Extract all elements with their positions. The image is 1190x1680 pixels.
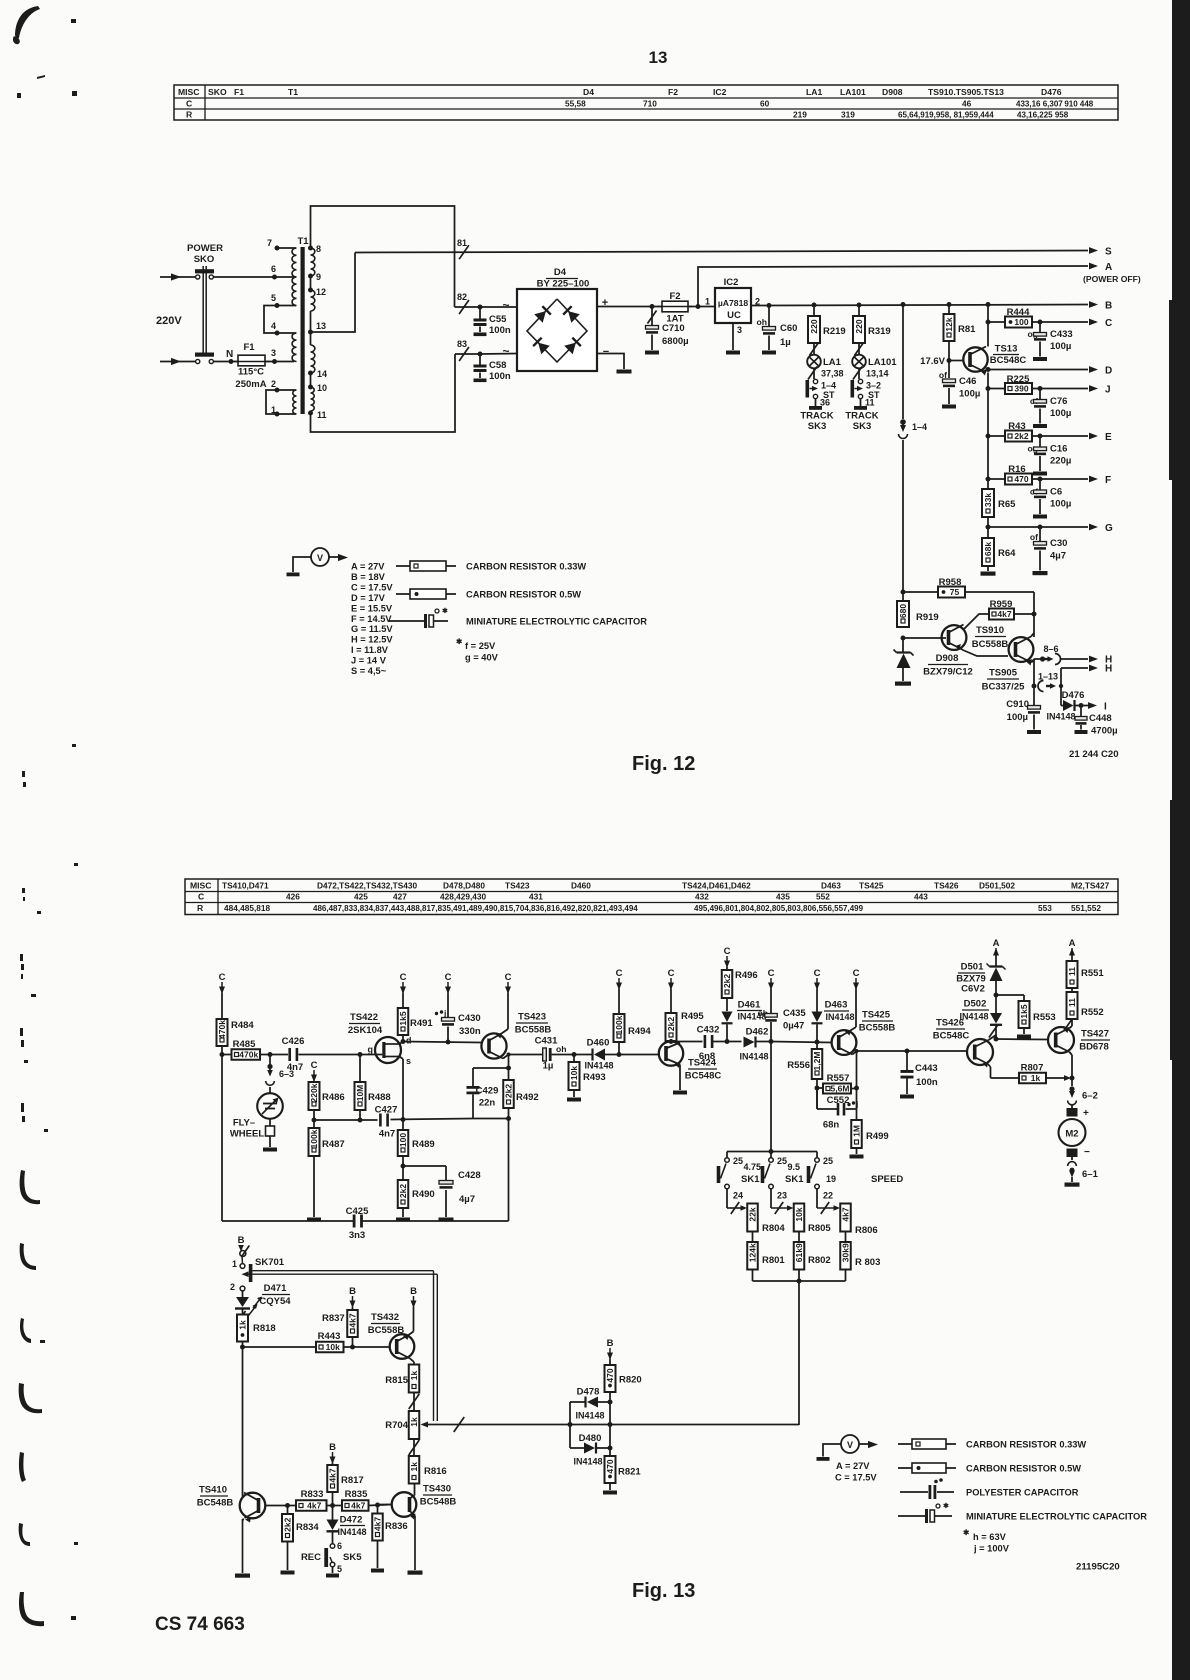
svg-text:A = 27V: A = 27V bbox=[836, 1461, 870, 1471]
svg-text:100µ: 100µ bbox=[1050, 341, 1071, 352]
svg-text:C46: C46 bbox=[959, 376, 976, 387]
svg-text:4k7: 4k7 bbox=[348, 1313, 358, 1327]
ground TS430 bbox=[408, 1571, 423, 1575]
svg-text:25: 25 bbox=[777, 1156, 787, 1166]
transistor TS423 BC558B bbox=[481, 1012, 551, 1059]
svg-text:1–4: 1–4 bbox=[821, 381, 836, 391]
svg-text:C60: C60 bbox=[780, 323, 797, 334]
svg-text:2k2: 2k2 bbox=[666, 1017, 676, 1031]
svg-text:✱: ✱ bbox=[442, 607, 448, 615]
svg-text:2k2: 2k2 bbox=[504, 1084, 514, 1098]
svg-text:4700µ: 4700µ bbox=[1091, 726, 1118, 737]
svg-text:IN4148: IN4148 bbox=[584, 1061, 613, 1071]
svg-text:100µ: 100µ bbox=[959, 389, 980, 400]
svg-text:2k2: 2k2 bbox=[398, 1184, 408, 1198]
svg-text:D476: D476 bbox=[1062, 690, 1085, 701]
svg-text:TS426: TS426 bbox=[934, 881, 959, 891]
svg-text:F = 14.5V: F = 14.5V bbox=[351, 614, 392, 624]
svg-text:1k: 1k bbox=[409, 1417, 419, 1427]
svg-text:V: V bbox=[317, 553, 323, 563]
ground R834 bbox=[281, 1571, 295, 1575]
resistor R485 bbox=[232, 1039, 261, 1060]
wire T1 pin 13 to S line (81) bbox=[311, 253, 356, 333]
wire R704 wiper input bbox=[421, 1417, 571, 1432]
svg-text:12: 12 bbox=[316, 287, 326, 297]
svg-text:TS430: TS430 bbox=[423, 1484, 451, 1495]
svg-text:SK1: SK1 bbox=[741, 1174, 760, 1185]
svg-text:1–13: 1–13 bbox=[1038, 672, 1058, 682]
svg-text:D908: D908 bbox=[936, 653, 959, 664]
ground R487 bbox=[307, 1218, 321, 1222]
svg-text:5: 5 bbox=[271, 293, 276, 303]
svg-text:R493: R493 bbox=[583, 1072, 606, 1083]
resistor R557 bbox=[815, 1073, 857, 1094]
svg-text:CARBON RESISTOR 0.33W: CARBON RESISTOR 0.33W bbox=[466, 562, 586, 572]
diode D460 IN4148 bbox=[584, 1038, 614, 1071]
connector 6-3 bbox=[266, 1055, 294, 1086]
capacitor C16 bbox=[1028, 436, 1072, 476]
svg-text:UC: UC bbox=[727, 310, 741, 321]
ground TS424 bbox=[673, 1091, 687, 1095]
svg-text:C30: C30 bbox=[1050, 538, 1067, 549]
svg-text:LA1: LA1 bbox=[806, 87, 822, 97]
svg-text:(POWER OFF): (POWER OFF) bbox=[1083, 274, 1141, 284]
svg-text:6800µ: 6800µ bbox=[662, 336, 689, 347]
svg-text:R489: R489 bbox=[412, 1139, 435, 1150]
fet TS422 2SK104 bbox=[348, 1012, 412, 1066]
svg-text:C: C bbox=[1105, 318, 1112, 329]
svg-text:D472: D472 bbox=[340, 1515, 363, 1526]
transistor TS426 BC548C bbox=[933, 1018, 993, 1068]
ground TS410 bbox=[235, 1574, 250, 1578]
svg-text:D478: D478 bbox=[577, 1387, 600, 1398]
svg-text:330n: 330n bbox=[459, 1026, 481, 1037]
svg-text:R833: R833 bbox=[301, 1489, 324, 1500]
capacitor C46 bbox=[939, 341, 980, 409]
resistor R959 bbox=[964, 599, 1035, 630]
supply arrow C (R491) bbox=[400, 972, 407, 994]
transistor TS427 BD678 bbox=[1048, 1026, 1110, 1055]
capacitor C435 bbox=[758, 989, 807, 1042]
T1 pin 5 bbox=[271, 293, 296, 308]
svg-text:TS425: TS425 bbox=[862, 1010, 891, 1021]
resistor R556 bbox=[787, 1042, 822, 1109]
wire F line bbox=[1038, 476, 1099, 483]
svg-text:55,58: 55,58 bbox=[565, 99, 586, 109]
svg-text:5,6M: 5,6M bbox=[831, 1084, 850, 1094]
wire TS910 emitter to TS905 base bbox=[964, 651, 1008, 657]
capacitor C443 bbox=[900, 1051, 938, 1099]
ground R490 bbox=[396, 1218, 410, 1222]
net label A (POWER OFF) bbox=[1083, 262, 1141, 284]
svg-text:B = 18V: B = 18V bbox=[351, 572, 386, 582]
wire R801-R803 bottom rail bbox=[753, 1270, 846, 1284]
net label G bbox=[1105, 523, 1113, 534]
scan mark hook bbox=[20, 1243, 36, 1270]
svg-text:4: 4 bbox=[271, 321, 276, 331]
svg-text:21 244 C20: 21 244 C20 bbox=[1069, 749, 1119, 760]
svg-text:R834: R834 bbox=[296, 1522, 319, 1533]
svg-text:R443: R443 bbox=[318, 1331, 341, 1342]
resistor R16 bbox=[988, 464, 1040, 485]
svg-text:1k: 1k bbox=[238, 1320, 248, 1330]
svg-text:WHEEL: WHEEL bbox=[230, 1129, 265, 1140]
svg-text:D501: D501 bbox=[961, 962, 984, 973]
svg-text:68n: 68n bbox=[823, 1120, 840, 1131]
svg-text:IN4148: IN4148 bbox=[575, 1411, 604, 1421]
svg-text:11: 11 bbox=[1067, 998, 1077, 1007]
svg-text:11: 11 bbox=[1067, 967, 1077, 976]
capacitor C60 bbox=[757, 303, 798, 355]
label 17.6V bbox=[920, 356, 945, 367]
svg-text:T1: T1 bbox=[297, 236, 309, 247]
legend polyester capacitor bbox=[900, 1478, 1079, 1499]
wire T1 pin 11 to bridge input (83) bbox=[311, 354, 481, 432]
resistor R553 bbox=[1019, 1001, 1056, 1034]
svg-text:C448: C448 bbox=[1089, 713, 1112, 724]
transistor TS432 BC558B bbox=[368, 1312, 415, 1362]
capacitor C910 bbox=[1006, 699, 1041, 734]
net label B bbox=[1105, 301, 1112, 312]
page number 13 bbox=[649, 48, 668, 67]
capacitor C426 bbox=[282, 1036, 305, 1073]
svg-text:D463: D463 bbox=[821, 881, 841, 891]
label 220V bbox=[156, 315, 182, 327]
legend miniature electrolytic capacitor bbox=[388, 607, 647, 628]
svg-text:B: B bbox=[349, 1286, 356, 1297]
svg-text:s: s bbox=[406, 1056, 411, 1066]
svg-text:BD678: BD678 bbox=[1079, 1042, 1109, 1053]
resistor R490 bbox=[398, 1166, 435, 1217]
svg-text:IN4148: IN4148 bbox=[337, 1527, 366, 1537]
adjust slash R704 bbox=[409, 1439, 420, 1456]
svg-text:13: 13 bbox=[316, 321, 326, 331]
svg-text:2: 2 bbox=[271, 379, 276, 389]
svg-text:470: 470 bbox=[605, 1368, 615, 1382]
svg-text:10k: 10k bbox=[326, 1342, 340, 1352]
svg-text:6: 6 bbox=[337, 1541, 342, 1551]
scan mark hook bbox=[19, 1452, 26, 1482]
svg-text:495,496,801,804,802,805,803,80: 495,496,801,804,802,805,803,806,556,557,… bbox=[694, 904, 864, 913]
legend voltage codes f g bbox=[456, 637, 499, 663]
svg-text:h = 63V: h = 63V bbox=[973, 1532, 1007, 1542]
svg-text:I = 11.8V: I = 11.8V bbox=[351, 645, 389, 655]
svg-text:431: 431 bbox=[529, 892, 543, 902]
svg-text:T1: T1 bbox=[288, 87, 298, 97]
svg-text:4k7: 4k7 bbox=[997, 609, 1011, 619]
svg-text:1k: 1k bbox=[409, 1371, 419, 1381]
node 82 bbox=[457, 292, 469, 314]
svg-text:1: 1 bbox=[232, 1259, 237, 1269]
svg-text:2k2: 2k2 bbox=[722, 974, 732, 988]
svg-text:R556: R556 bbox=[787, 1060, 810, 1071]
svg-text:H: H bbox=[1105, 664, 1112, 675]
svg-text:C430: C430 bbox=[458, 1013, 481, 1024]
svg-text:TS13: TS13 bbox=[995, 344, 1018, 355]
wire T1 pin 8 to bridge input (82) bbox=[311, 206, 481, 307]
capacitor C552 bbox=[817, 1088, 858, 1131]
svg-text:R804: R804 bbox=[762, 1223, 785, 1234]
switch SK701 bbox=[230, 1246, 285, 1293]
legend voltage codes h j bbox=[963, 1528, 1010, 1554]
legend carbon resistor 0.33W bbox=[396, 561, 586, 572]
svg-text:R551: R551 bbox=[1081, 968, 1104, 979]
svg-text:R487: R487 bbox=[322, 1139, 345, 1150]
supply arrow C (R484) bbox=[219, 972, 226, 994]
caption Fig. 12 bbox=[632, 753, 695, 775]
svg-text:220k: 220k bbox=[309, 1083, 319, 1102]
svg-text:F2: F2 bbox=[668, 87, 678, 97]
zener D908 BZX79/C12 bbox=[894, 638, 973, 681]
resistor R704 bbox=[385, 1411, 419, 1439]
resistor R319 / lamp LA101 / switch TRACK SK3 bbox=[845, 303, 897, 433]
ground D908 bbox=[895, 682, 911, 686]
svg-text:R496: R496 bbox=[735, 970, 758, 981]
svg-text:C = 17.5V: C = 17.5V bbox=[835, 1473, 877, 1483]
svg-text:553: 553 bbox=[1038, 903, 1052, 913]
resistor R487 bbox=[309, 1128, 345, 1217]
wire D line bbox=[988, 366, 1098, 373]
diode D472 IN4148 bbox=[327, 1506, 367, 1544]
ground R499 bbox=[850, 1155, 864, 1159]
wire D462 to TS425 base bbox=[769, 1039, 832, 1045]
svg-text:22k: 22k bbox=[748, 1207, 758, 1221]
supply arrow C (D463) bbox=[814, 968, 821, 990]
svg-text:8–6: 8–6 bbox=[1043, 644, 1058, 654]
svg-text:D501,502: D501,502 bbox=[979, 881, 1015, 891]
svg-text:390: 390 bbox=[1014, 384, 1028, 394]
svg-text:G: G bbox=[1105, 523, 1113, 534]
svg-text:C432: C432 bbox=[697, 1025, 720, 1036]
component location table (Fig13) bbox=[185, 879, 1118, 915]
svg-text:C16: C16 bbox=[1050, 444, 1067, 455]
svg-text:BC558B: BC558B bbox=[859, 1023, 896, 1034]
svg-text:C6: C6 bbox=[1050, 487, 1062, 498]
capacitor C433 bbox=[1028, 322, 1073, 361]
scan mark hook bbox=[20, 1170, 40, 1204]
wire 83 to bridge bbox=[478, 352, 518, 357]
wire D501 to R553 bbox=[994, 993, 1025, 1002]
svg-text:R486: R486 bbox=[322, 1092, 345, 1103]
svg-text:C435: C435 bbox=[783, 1008, 806, 1019]
svg-text:C443: C443 bbox=[915, 1063, 938, 1074]
svg-text:D502: D502 bbox=[964, 999, 987, 1010]
svg-text:TS410,D471: TS410,D471 bbox=[222, 881, 269, 891]
svg-text:M2,TS427: M2,TS427 bbox=[1071, 881, 1110, 891]
wire right rail R958-R959-TS905 bbox=[1032, 592, 1037, 637]
capacitor C710 6800u bbox=[645, 307, 689, 355]
svg-text:D480: D480 bbox=[579, 1433, 602, 1444]
T1 pin 13 bbox=[308, 321, 326, 335]
svg-text:3: 3 bbox=[271, 348, 276, 358]
resistor R489 bbox=[398, 1120, 435, 1169]
svg-text:SK5: SK5 bbox=[343, 1552, 362, 1563]
svg-text:D908: D908 bbox=[882, 87, 903, 97]
svg-text:−: − bbox=[603, 346, 609, 358]
switch SK1 contact 25-22 (19) bbox=[807, 1152, 840, 1215]
svg-text:C: C bbox=[445, 972, 452, 983]
svg-text:A: A bbox=[993, 938, 1000, 949]
svg-text:IN4148: IN4148 bbox=[825, 1012, 854, 1022]
svg-text:C: C bbox=[724, 946, 731, 957]
svg-text:100n: 100n bbox=[489, 325, 511, 336]
svg-text:IC2: IC2 bbox=[724, 277, 739, 288]
wire I line bbox=[1088, 702, 1097, 709]
svg-text:124k: 124k bbox=[748, 1243, 758, 1262]
svg-text:BC548C: BC548C bbox=[933, 1031, 970, 1042]
svg-text:1AT: 1AT bbox=[666, 314, 683, 325]
svg-text:R 803: R 803 bbox=[855, 1257, 880, 1268]
svg-text:6–1: 6–1 bbox=[1082, 1169, 1099, 1180]
svg-text:TS423: TS423 bbox=[518, 1012, 546, 1023]
svg-text:BC548C: BC548C bbox=[990, 355, 1027, 366]
svg-text:9: 9 bbox=[316, 272, 321, 282]
svg-text:BC337/25: BC337/25 bbox=[982, 682, 1025, 693]
svg-text:j = 100V: j = 100V bbox=[973, 1544, 1010, 1554]
wire TS13 emitter rail down bbox=[986, 367, 991, 489]
svg-text:D463: D463 bbox=[825, 1000, 848, 1011]
svg-text:−: − bbox=[1084, 1147, 1090, 1158]
wire 82 to bridge bbox=[478, 305, 518, 310]
switch SK5 REC bbox=[301, 1541, 362, 1574]
svg-text:C: C bbox=[853, 968, 860, 979]
svg-text:oh: oh bbox=[556, 1044, 567, 1054]
svg-text:6–2: 6–2 bbox=[1082, 1091, 1098, 1102]
svg-text:9.5: 9.5 bbox=[788, 1162, 801, 1172]
svg-text:115°C: 115°C bbox=[238, 367, 264, 378]
svg-text:1–4: 1–4 bbox=[912, 422, 927, 432]
svg-text:10k: 10k bbox=[569, 1066, 579, 1080]
svg-text:81: 81 bbox=[457, 238, 467, 248]
svg-text:0µ47: 0µ47 bbox=[783, 1021, 804, 1032]
svg-text:R805: R805 bbox=[808, 1223, 831, 1234]
scan mark hook bbox=[20, 1318, 45, 1343]
transformer T1 bbox=[292, 236, 315, 414]
led D471 CQY54 bbox=[235, 1283, 291, 1324]
wire TS410 base bbox=[265, 1503, 296, 1508]
wire J line bbox=[1038, 385, 1099, 392]
svg-text:7: 7 bbox=[267, 238, 272, 248]
capacitor C55 bbox=[474, 307, 511, 336]
svg-text:oh: oh bbox=[757, 317, 768, 327]
svg-text:C: C bbox=[768, 968, 775, 979]
svg-text:IN4148: IN4148 bbox=[1046, 712, 1075, 722]
adjust slash R815 bbox=[409, 1393, 420, 1412]
wire main y1055 bbox=[260, 1052, 374, 1057]
svg-text:2k2: 2k2 bbox=[1014, 431, 1028, 441]
svg-text:21195C20: 21195C20 bbox=[1076, 1562, 1120, 1573]
wire B rail to connector 1-4 bbox=[901, 302, 906, 419]
motor M2 bbox=[1059, 1105, 1099, 1183]
capacitor C30 bbox=[1030, 527, 1068, 575]
wire S line bbox=[355, 247, 1098, 254]
svg-text:E: E bbox=[1105, 432, 1112, 443]
svg-text:CARBON RESISTOR 0.33W: CARBON RESISTOR 0.33W bbox=[966, 1440, 1086, 1450]
svg-text:13: 13 bbox=[649, 48, 668, 67]
svg-text:R484: R484 bbox=[231, 1020, 254, 1031]
svg-text:POWER: POWER bbox=[187, 243, 223, 254]
net label F bbox=[1105, 475, 1111, 486]
scan mark hook bbox=[19, 1592, 76, 1626]
wire bridge minus to ground bbox=[597, 354, 624, 370]
svg-text:IN4148: IN4148 bbox=[739, 1052, 768, 1062]
svg-text:4k7: 4k7 bbox=[328, 1468, 338, 1482]
svg-text:R219: R219 bbox=[823, 326, 846, 337]
voltage list bbox=[351, 562, 393, 677]
wire C435 column to SK1 rail bbox=[770, 1042, 772, 1152]
svg-text:100: 100 bbox=[398, 1133, 408, 1147]
svg-text:g: g bbox=[368, 1045, 374, 1055]
svg-text:75: 75 bbox=[950, 587, 960, 597]
svg-text:R820: R820 bbox=[619, 1375, 642, 1386]
svg-text:25: 25 bbox=[823, 1156, 833, 1166]
svg-text:83: 83 bbox=[457, 339, 467, 349]
svg-text:319: 319 bbox=[841, 110, 855, 120]
svg-text:MISC: MISC bbox=[178, 87, 199, 97]
wire H line 2 bbox=[1061, 665, 1098, 672]
svg-text:68k: 68k bbox=[983, 542, 993, 556]
svg-text:FLY–: FLY– bbox=[233, 1118, 255, 1129]
svg-text:3n3: 3n3 bbox=[349, 1230, 365, 1241]
T1 pin 9 bbox=[308, 272, 321, 282]
svg-text:Fig. 13: Fig. 13 bbox=[632, 1580, 695, 1602]
resistor R491 bbox=[398, 993, 434, 1042]
svg-text:D478,D480: D478,D480 bbox=[443, 881, 485, 891]
resistor R802 bbox=[794, 1232, 831, 1270]
svg-text:R494: R494 bbox=[628, 1026, 651, 1037]
svg-text:F: F bbox=[1105, 475, 1111, 486]
scan dot bbox=[17, 75, 77, 98]
svg-text:CS 74 663: CS 74 663 bbox=[155, 1614, 245, 1635]
supply arrow C (R495) bbox=[668, 968, 675, 990]
svg-text:1M: 1M bbox=[852, 1125, 862, 1137]
svg-text:TS905: TS905 bbox=[989, 668, 1018, 679]
resistor R65 bbox=[982, 489, 1016, 527]
node 81 bbox=[457, 238, 469, 259]
wire F2 to IC2 pin1 bbox=[688, 304, 715, 309]
resistor R919 bbox=[897, 601, 939, 627]
svg-text:f = 25V: f = 25V bbox=[465, 641, 496, 651]
wire speed net vertical bbox=[798, 1281, 800, 1425]
svg-text:~: ~ bbox=[502, 344, 509, 358]
net label D bbox=[1105, 366, 1112, 377]
svg-text:37,38: 37,38 bbox=[821, 369, 844, 379]
T1 pin 10 bbox=[308, 383, 327, 393]
svg-text:C: C bbox=[311, 1060, 318, 1071]
T1 pin 2 bbox=[271, 379, 296, 393]
supply arrow A (D501) bbox=[993, 938, 1000, 956]
flywheel generator bbox=[230, 1087, 283, 1147]
wire fuse to T1 pin 3 bbox=[265, 359, 294, 364]
wire TS424 emitter to ground bbox=[679, 1065, 681, 1091]
svg-text:C: C bbox=[616, 968, 623, 979]
svg-text:j: j bbox=[855, 1099, 858, 1109]
node 83 bbox=[457, 339, 469, 361]
svg-text:D460: D460 bbox=[587, 1038, 610, 1049]
ground IC2 bbox=[726, 351, 740, 355]
svg-text:R919: R919 bbox=[916, 612, 939, 623]
resistor R821 bbox=[605, 1448, 642, 1490]
net label H bbox=[1105, 664, 1112, 675]
wire connector to R919 bbox=[901, 440, 906, 601]
svg-text:1k: 1k bbox=[1031, 1073, 1041, 1083]
svg-text:100n: 100n bbox=[489, 371, 511, 382]
svg-text:433,16 6,307 910 448: 433,16 6,307 910 448 bbox=[1016, 100, 1094, 109]
svg-text:1: 1 bbox=[705, 297, 710, 307]
svg-text:220: 220 bbox=[854, 319, 864, 333]
net label S bbox=[1105, 247, 1112, 258]
resistor R836 bbox=[372, 1505, 407, 1568]
